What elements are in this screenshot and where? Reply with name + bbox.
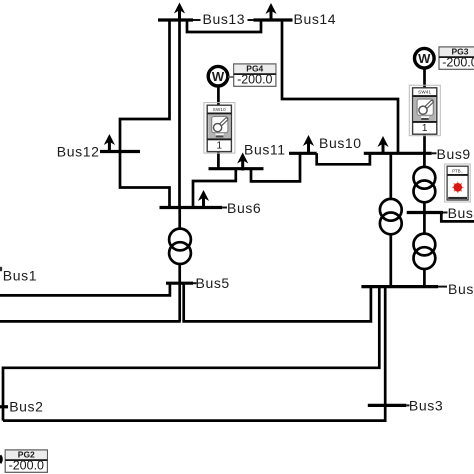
- svg-text:-200.0: -200.0: [9, 459, 44, 473]
- svg-text:Bus11: Bus11: [244, 141, 286, 157]
- svg-text:Bus6: Bus6: [227, 200, 261, 216]
- wire Bus11 up to switch SW10: [217, 151, 220, 169]
- transformer T2: [414, 167, 436, 202]
- svg-text:Bus7: Bus7: [448, 205, 474, 221]
- wire Bus8 down left to Bus2: [3, 287, 379, 421]
- wire transformer T3 down to Bus8: [423, 268, 426, 287]
- label dash Bus6: [222, 207, 227, 209]
- transformer T3: [414, 234, 436, 269]
- svg-text:Bus14: Bus14: [294, 11, 337, 27]
- wire Bus9 down to transformer T4: [389, 153, 392, 200]
- svg-text:-200.0: -200.0: [442, 56, 474, 70]
- svg-text:SW41: SW41: [418, 89, 431, 94]
- svg-text:Bus5: Bus5: [196, 275, 230, 291]
- Bus1 left edge mark: [0, 267, 2, 271]
- bus bar Bus13: [158, 18, 193, 21]
- label dash Bus9: [432, 152, 437, 154]
- wire transformer T4 down to Bus8: [389, 234, 392, 287]
- svg-text:Bus2: Bus2: [9, 398, 43, 414]
- wire Bus9 down to transformer T2: [423, 153, 426, 168]
- wire transformer T1 to Bus5 and down: [178, 264, 181, 321]
- bus bar Bus5: [166, 282, 193, 285]
- svg-text:-200.0: -200.0: [237, 73, 272, 87]
- wire Bus13-Bus14 connector: [187, 20, 261, 32]
- arrow Bus12: [104, 134, 115, 152]
- wire switch SW41 up to W meter: [423, 68, 426, 89]
- bus bar Bus12: [100, 150, 140, 153]
- bus bar Bus6: [160, 206, 223, 209]
- label box PG4: [228, 63, 276, 86]
- switch SW10: [204, 103, 235, 154]
- arrow Bus10: [303, 135, 314, 153]
- meter W1: [208, 66, 228, 86]
- meter W2: [415, 48, 435, 68]
- arrow Bus11: [237, 153, 248, 171]
- label dash Bus8: [438, 286, 447, 288]
- wire Bus8 down to Bus3 and left: [3, 287, 385, 421]
- wire Bus14 down right to Bus9: [282, 20, 398, 153]
- switch SW41: [409, 85, 440, 136]
- wire switch SW10 up to W meter: [217, 86, 220, 106]
- bus bar Bus8: [361, 285, 438, 288]
- svg-text:Bus8: Bus8: [448, 281, 474, 297]
- svg-text:Bus12: Bus12: [57, 144, 100, 160]
- svg-text:Bus1: Bus1: [3, 268, 37, 284]
- wire Bus6 to Bus11 zig: [193, 169, 236, 208]
- wire Bus11 to Bus10 zig: [251, 153, 300, 181]
- wire Bus7 step to right edge: [441, 213, 474, 222]
- label box PG3: [439, 46, 474, 69]
- wire Bus10 to Bus9 dip: [317, 153, 370, 164]
- transformer T1: [169, 229, 191, 264]
- transformer T4: [380, 199, 402, 234]
- svg-text:Bus9: Bus9: [437, 146, 471, 162]
- wire Bus1 horizontal to Bus5: [0, 283, 170, 295]
- arrow Bus9: [377, 136, 388, 154]
- wire transformer T2 down to Bus7: [423, 202, 426, 213]
- wire Bus12 down to Bus6: [120, 152, 170, 208]
- svg-text:Bus13: Bus13: [203, 11, 246, 27]
- arrow Bus13: [174, 3, 185, 21]
- svg-text:Bus10: Bus10: [319, 135, 362, 151]
- wire Bus7 down to transformer T3: [423, 213, 426, 235]
- label dash Bus13 left: [193, 19, 201, 21]
- label dash Bus7: [443, 212, 448, 214]
- arrow Bus14: [265, 3, 276, 21]
- bus bar Bus10: [289, 152, 317, 155]
- wire Bus5 down right to Bus8: [184, 283, 371, 321]
- wire lower-left horizontal: [0, 320, 181, 323]
- svg-text:PTB..: PTB..: [452, 168, 463, 173]
- bus bar Bus11: [209, 167, 264, 170]
- label dash Bus13 right: [248, 19, 254, 21]
- bus bar Bus3: [368, 404, 407, 407]
- wire Bus6 down to transformer T1: [178, 208, 181, 230]
- wire Bus13 straight to Bus6: [178, 20, 181, 208]
- label box PG2: [0, 449, 47, 472]
- bus bar Bus9: [364, 152, 432, 155]
- cut-off W meter at left edge: [0, 456, 1, 464]
- bus bar Bus2 tick: [0, 405, 8, 408]
- label dash Bus3: [406, 404, 409, 406]
- wire Bus9 up to switch SW41: [423, 134, 426, 154]
- label dash Bus5: [193, 282, 197, 284]
- push button PTB1: [445, 164, 471, 202]
- bus bar Bus7: [407, 211, 443, 214]
- wire Bus13 left drop to Bus12: [120, 20, 170, 152]
- arrow Bus6: [198, 190, 209, 208]
- bus bar Bus14: [254, 18, 293, 21]
- svg-text:Bus3: Bus3: [409, 397, 443, 413]
